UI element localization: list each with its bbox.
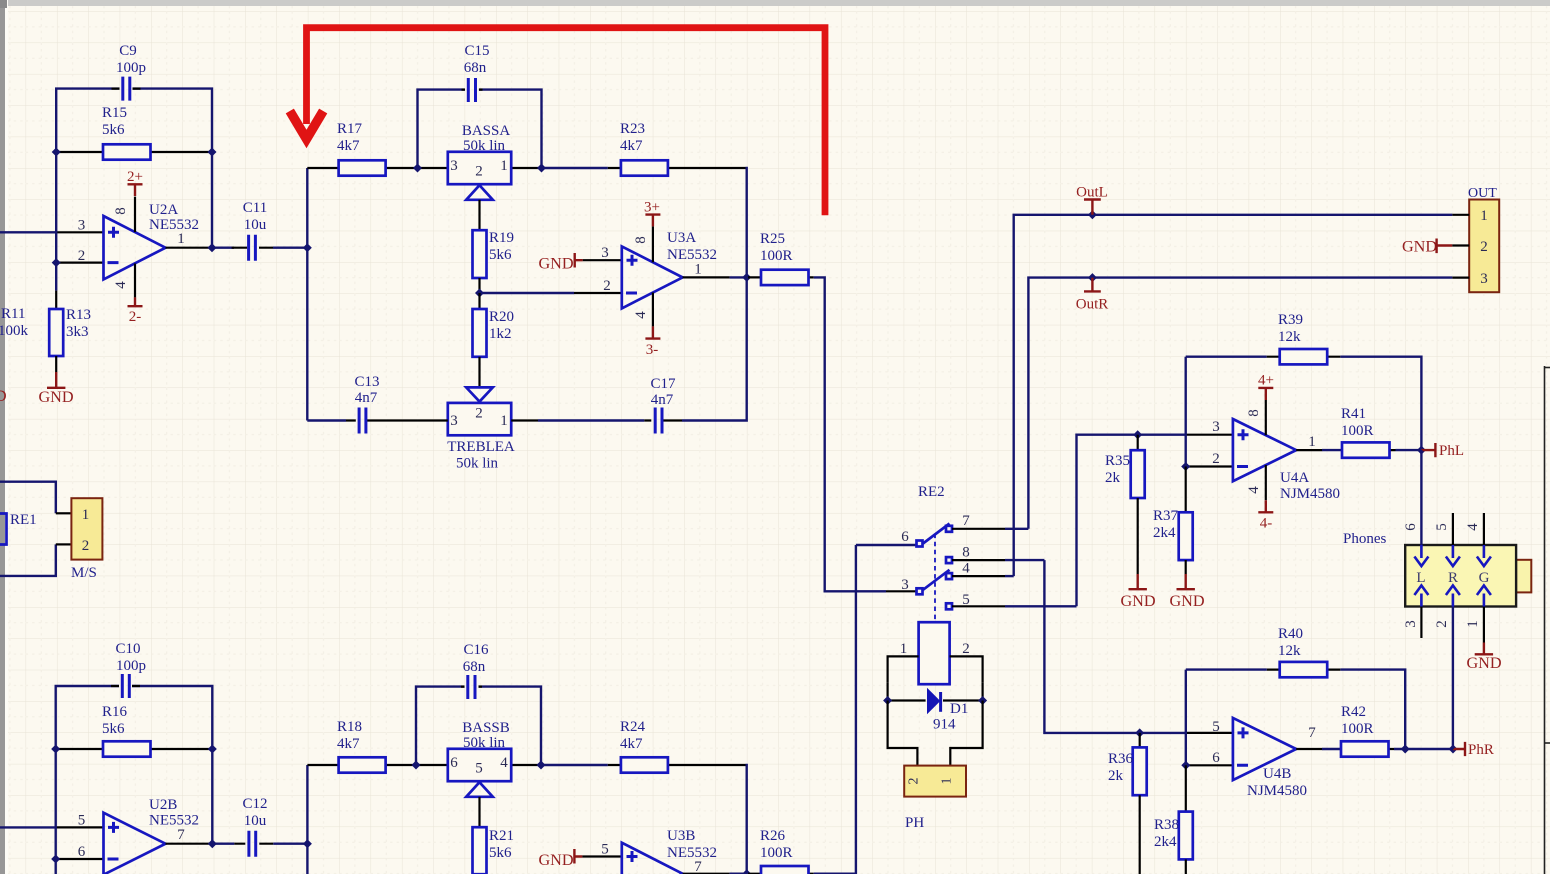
svg-text:100p: 100p — [116, 60, 146, 76]
svg-text:5: 5 — [475, 761, 483, 777]
output pin 1 wire — [1296, 449, 1395, 451]
svg-text:R11: R11 — [1, 306, 25, 322]
switch arm 3-4 — [923, 570, 950, 590]
svg-text:1: 1 — [1480, 208, 1488, 224]
coil pin 1 — [888, 656, 919, 682]
wire U2A inverting node — [55, 152, 57, 263]
svg-text:6: 6 — [78, 844, 86, 860]
resistor R17 — [339, 160, 386, 175]
svg-text:4: 4 — [1465, 523, 1481, 531]
svg-text:2: 2 — [1480, 239, 1488, 255]
svg-text:R38: R38 — [1154, 817, 1179, 833]
resistor R25 — [761, 270, 809, 285]
svg-text:68n: 68n — [464, 60, 487, 76]
resistor R23 — [621, 160, 668, 175]
svg-text:1k2: 1k2 — [489, 326, 512, 342]
wire R40/R38 node to U4B pin6 — [1185, 670, 1187, 766]
red annotation arrow — [290, 28, 825, 216]
wire R16 row — [56, 748, 213, 750]
svg-text:R41: R41 — [1341, 406, 1366, 422]
resistor R41 — [1342, 442, 1390, 457]
svg-text:GND: GND — [538, 851, 573, 869]
svg-text:100R: 100R — [760, 248, 793, 264]
svg-text:5k6: 5k6 — [102, 122, 125, 138]
wire R25 to RE2 pin3 — [814, 277, 886, 591]
svg-text:5k6: 5k6 — [489, 247, 512, 263]
power 3+ pin 8 — [652, 226, 654, 262]
svg-text:R16: R16 — [102, 704, 128, 720]
svg-text:GND: GND — [38, 388, 73, 406]
svg-text:C16: C16 — [463, 642, 489, 658]
svg-text:NJM4580: NJM4580 — [1280, 486, 1340, 502]
svg-text:U4A: U4A — [1280, 470, 1309, 486]
svg-text:4: 4 — [633, 311, 649, 319]
output pin 1 wire — [683, 276, 730, 278]
svg-text:RE2: RE2 — [918, 484, 945, 500]
output pin 7 wire — [683, 873, 730, 874]
svg-text:12k: 12k — [1278, 643, 1301, 659]
wire C9 top loop — [56, 89, 212, 152]
wire U2A out node vertical — [211, 152, 213, 248]
OUT pin3 lead — [1452, 277, 1469, 279]
pin 6 wire from PhL — [1420, 450, 1422, 545]
svg-text:8: 8 — [1246, 409, 1262, 417]
PhL node — [1396, 449, 1422, 451]
wire to pin 6 — [856, 544, 916, 546]
wire OutL net — [1014, 215, 1453, 576]
svg-text:U3A: U3A — [667, 230, 696, 246]
contact pin 6 — [917, 541, 923, 547]
jack body — [1516, 560, 1531, 593]
resistor R13 — [55, 263, 57, 291]
relay RE1 coil fragment at left edge — [0, 514, 7, 545]
connector PH — [904, 766, 966, 797]
svg-text:1: 1 — [694, 262, 702, 278]
svg-text:R36: R36 — [1108, 751, 1134, 767]
svg-text:8: 8 — [633, 236, 649, 244]
svg-text:4-: 4- — [1260, 516, 1273, 532]
svg-text:100R: 100R — [1341, 423, 1374, 439]
capacitor C15 — [468, 78, 475, 102]
power port OutR — [1088, 273, 1097, 282]
svg-text:C11: C11 — [243, 200, 267, 216]
feedback wire R39 — [1186, 357, 1422, 450]
svg-text:PH: PH — [905, 815, 924, 831]
svg-text:50k lin: 50k lin — [463, 735, 506, 751]
svg-text:3: 3 — [1403, 620, 1419, 628]
svg-text:GND: GND — [0, 387, 7, 405]
jack contacts L R G — [1414, 545, 1491, 607]
resistor R36 — [1139, 733, 1141, 748]
wire R18 row — [307, 764, 541, 766]
svg-text:R39: R39 — [1278, 312, 1303, 328]
svg-text:GND: GND — [1402, 238, 1437, 256]
power port PhL — [1421, 443, 1435, 457]
svg-text:R19: R19 — [489, 230, 514, 246]
svg-text:R25: R25 — [760, 231, 785, 247]
pin 4 contact — [946, 573, 952, 579]
svg-text:BASSA: BASSA — [462, 123, 511, 139]
wire RE2 pin5 to U4A pin3 — [1077, 435, 1187, 607]
svg-text:RE1: RE1 — [10, 512, 37, 528]
svg-text:4k7: 4k7 — [620, 138, 643, 154]
op-amp U2A — [104, 216, 166, 279]
power 4- pin 4 — [1265, 465, 1267, 500]
svg-text:R35: R35 — [1105, 453, 1130, 469]
OUT pin1 lead — [1452, 214, 1469, 216]
svg-text:1: 1 — [1465, 620, 1481, 628]
pin 1 GND — [1483, 607, 1485, 643]
svg-text:GND: GND — [538, 255, 573, 273]
pin 3 stub — [1420, 607, 1422, 639]
capacitor C10 — [122, 674, 129, 698]
capacitor C17 — [655, 408, 662, 434]
svg-text:7: 7 — [177, 827, 185, 843]
feedback wire R40 — [1186, 670, 1405, 749]
svg-text:50k lin: 50k lin — [456, 456, 499, 472]
svg-text:3: 3 — [1480, 271, 1488, 287]
svg-text:8: 8 — [962, 545, 970, 561]
diode D1 — [927, 688, 940, 715]
wire C16 loop — [416, 687, 541, 765]
svg-text:4: 4 — [113, 281, 129, 289]
svg-text:4+: 4+ — [1258, 373, 1274, 389]
svg-text:BASSB: BASSB — [462, 720, 510, 736]
svg-text:R20: R20 — [489, 309, 514, 325]
svg-text:2k4: 2k4 — [1154, 834, 1177, 850]
contact pin 7 — [946, 526, 952, 532]
svg-text:5k6: 5k6 — [102, 721, 125, 737]
wire U2B inverting node — [55, 749, 57, 874]
wire RE2 pin8 to U4B pin5 — [1044, 560, 1186, 733]
resistor R37 — [1185, 467, 1187, 513]
resistor R39 — [1280, 349, 1328, 364]
svg-text:6: 6 — [901, 529, 909, 545]
node vertical left x307 — [306, 168, 308, 421]
svg-text:1: 1 — [82, 507, 90, 523]
svg-text:3: 3 — [1212, 419, 1220, 435]
svg-text:U2B: U2B — [149, 797, 177, 813]
svg-text:50k lin: 50k lin — [463, 138, 506, 154]
junction BASSA pin3 node — [413, 164, 422, 173]
svg-text:1: 1 — [177, 231, 185, 247]
resistor R42 — [1341, 741, 1389, 756]
resistor R35 — [1137, 435, 1139, 451]
svg-text:1: 1 — [500, 413, 508, 429]
svg-text:C17: C17 — [650, 376, 676, 392]
TREBLEA wiper arrow — [478, 357, 480, 388]
pin 4 stub — [1483, 513, 1485, 545]
svg-text:U4B: U4B — [1263, 766, 1291, 782]
svg-text:4k7: 4k7 — [620, 736, 643, 752]
svg-text:6: 6 — [450, 755, 458, 771]
svg-text:4n7: 4n7 — [355, 390, 378, 406]
svg-text:1: 1 — [900, 641, 908, 657]
svg-text:PhR: PhR — [1468, 742, 1494, 758]
wire C10 top loop — [56, 686, 213, 749]
svg-text:2: 2 — [1212, 451, 1220, 467]
connector M/S — [71, 498, 102, 559]
op-amp U3A — [622, 246, 683, 308]
resistor R24 — [621, 757, 668, 772]
wire to C11 — [212, 246, 234, 248]
svg-text:2: 2 — [1434, 620, 1450, 628]
UI strips — [0, 0, 1550, 6]
svg-text:4n7: 4n7 — [651, 392, 674, 408]
svg-text:R40: R40 — [1278, 626, 1303, 642]
power 2- pin 4 — [134, 264, 136, 298]
svg-text:100R: 100R — [760, 845, 793, 861]
junction dots R15 row — [52, 148, 61, 157]
svg-text:5: 5 — [78, 813, 86, 829]
svg-text:1: 1 — [940, 778, 955, 785]
svg-text:3: 3 — [450, 158, 458, 174]
svg-text:U2A: U2A — [149, 202, 178, 218]
svg-text:R23: R23 — [620, 121, 645, 137]
pin 2 wire to PhR — [1452, 607, 1454, 750]
svg-text:C10: C10 — [115, 641, 140, 657]
wire C13 row — [307, 419, 346, 421]
svg-text:6: 6 — [1212, 750, 1220, 766]
diode D1 row — [886, 682, 888, 700]
node vertical left x307 up to R18 — [306, 765, 308, 844]
capacitor C12 — [249, 831, 256, 857]
svg-text:G: G — [1479, 570, 1490, 586]
power 2+ pin 8 — [134, 197, 136, 233]
svg-text:5: 5 — [1212, 719, 1220, 735]
svg-text:C15: C15 — [464, 43, 489, 59]
resistor R26 — [761, 866, 809, 874]
svg-text:5: 5 — [1434, 523, 1450, 531]
svg-text:3: 3 — [901, 577, 909, 593]
dashed link line — [934, 534, 936, 620]
svg-text:2k: 2k — [1108, 768, 1124, 784]
svg-text:OutL: OutL — [1076, 185, 1108, 201]
svg-text:2k4: 2k4 — [1153, 525, 1176, 541]
svg-text:1: 1 — [1308, 434, 1316, 450]
svg-text:3: 3 — [601, 245, 609, 261]
svg-text:2: 2 — [78, 248, 86, 264]
svg-text:GND: GND — [1120, 592, 1155, 610]
pin 7 lead — [952, 528, 1005, 530]
svg-text:10u: 10u — [244, 813, 267, 829]
potentiometer TREBLEA — [448, 403, 511, 435]
svg-text:1: 1 — [500, 158, 508, 174]
ground R35 — [1137, 498, 1139, 574]
wire to R25 — [747, 276, 749, 278]
svg-text:R42: R42 — [1341, 704, 1366, 720]
output pin 7 wire — [166, 843, 211, 845]
svg-text:4k7: 4k7 — [337, 138, 360, 154]
contact pin 3 — [917, 588, 923, 594]
svg-text:4: 4 — [962, 561, 970, 577]
svg-text:OutR: OutR — [1076, 297, 1109, 313]
pin 8 contact — [946, 557, 952, 563]
op-amp U4B — [1233, 718, 1296, 780]
svg-text:C9: C9 — [119, 43, 137, 59]
svg-text:NE5532: NE5532 — [149, 813, 199, 829]
wire RE1 pin2 — [0, 544, 56, 576]
svg-text:914: 914 — [933, 717, 956, 733]
output pin 1 wire — [166, 247, 211, 249]
svg-text:C13: C13 — [354, 374, 379, 390]
svg-text:R21: R21 — [489, 828, 514, 844]
svg-text:5: 5 — [601, 842, 609, 858]
op-amp U2B — [104, 813, 166, 874]
svg-text:2: 2 — [962, 641, 970, 657]
power 4+ pin 8 — [1265, 400, 1267, 435]
resistor R18 — [339, 757, 386, 772]
wire node to U3A pin2 — [480, 292, 575, 294]
svg-text:TREBLEA: TREBLEA — [447, 439, 515, 455]
wire R19 to node pin2 — [478, 278, 480, 293]
wire RE1 pin1 — [0, 482, 56, 514]
power 3- pin 4 — [652, 293, 654, 327]
capacitor C16 — [468, 675, 475, 699]
svg-text:NE5532: NE5532 — [667, 845, 717, 861]
svg-text:4: 4 — [500, 755, 508, 771]
pin 5 stub — [1452, 513, 1454, 545]
resistor R38 — [1185, 765, 1187, 811]
svg-text:3: 3 — [450, 413, 458, 429]
wire R15 row — [56, 151, 212, 153]
svg-text:R18: R18 — [337, 719, 362, 735]
capacitor C11 — [249, 235, 256, 261]
svg-text:8: 8 — [113, 207, 129, 215]
switch arm 6-7 — [923, 524, 950, 544]
svg-text:Phones: Phones — [1343, 531, 1387, 547]
svg-text:NE5532: NE5532 — [149, 217, 199, 233]
wire TREBLEA pin1 to C17 row — [538, 277, 747, 420]
svg-text:100R: 100R — [1341, 721, 1374, 737]
svg-text:R26: R26 — [760, 828, 786, 844]
ground R37 — [1185, 560, 1187, 574]
svg-text:2-: 2- — [129, 309, 142, 325]
resistor R20 — [478, 293, 480, 309]
svg-text:4: 4 — [1246, 486, 1262, 494]
svg-text:NE5532: NE5532 — [667, 247, 717, 263]
svg-text:NJM4580: NJM4580 — [1247, 783, 1307, 799]
wire BASSB pin4 to R24 — [541, 765, 747, 873]
svg-text:C12: C12 — [242, 796, 267, 812]
resistor R16 — [103, 741, 151, 756]
pin 3 lead U2A — [56, 231, 104, 233]
wire to R26 — [748, 873, 814, 874]
svg-text:100k: 100k — [0, 323, 29, 339]
svg-text:10u: 10u — [244, 217, 267, 233]
svg-text:R15: R15 — [102, 105, 127, 121]
wire C15 loop — [418, 90, 542, 168]
svg-text:R17: R17 — [337, 121, 363, 137]
ground R13 — [55, 356, 57, 372]
svg-text:2: 2 — [475, 406, 483, 422]
sheet border right — [1544, 366, 1546, 874]
wire input B to U2B pin5 — [0, 826, 56, 828]
wire R39/R37 node to U4A pin2 — [1184, 357, 1186, 467]
svg-text:68n: 68n — [463, 659, 486, 675]
svg-text:3+: 3+ — [644, 200, 660, 216]
svg-text:7: 7 — [1308, 725, 1316, 741]
svg-text:D1: D1 — [950, 701, 968, 717]
svg-text:7: 7 — [962, 513, 970, 529]
svg-text:3: 3 — [78, 218, 86, 234]
svg-text:R: R — [1448, 570, 1458, 586]
potentiometer BASSB — [448, 749, 511, 781]
pin 5 contact — [946, 603, 952, 609]
svg-text:5: 5 — [962, 592, 970, 608]
wire input A to U2A pin3 — [0, 231, 56, 233]
op-amp U3B — [622, 843, 683, 874]
resistor R19 — [473, 230, 487, 278]
svg-text:100p: 100p — [116, 658, 146, 674]
op-amp U4A — [1233, 419, 1296, 481]
wires D1 to PH — [888, 701, 918, 766]
svg-text:GND: GND — [1169, 592, 1204, 610]
svg-text:M/S: M/S — [71, 565, 97, 581]
relay coil RE2 — [919, 622, 950, 684]
PhR node — [1394, 748, 1453, 750]
svg-text:12k: 12k — [1278, 329, 1301, 345]
svg-text:2+: 2+ — [127, 169, 143, 185]
wire C12 to tone node — [273, 843, 307, 845]
svg-text:3-: 3- — [646, 342, 659, 358]
svg-text:2: 2 — [603, 278, 611, 294]
coil pin 2 — [950, 656, 983, 682]
svg-text:R24: R24 — [620, 719, 646, 735]
svg-text:5k6: 5k6 — [489, 845, 512, 861]
junction BASSB pin6 node — [412, 761, 421, 770]
svg-text:GND: GND — [1466, 654, 1501, 672]
wire OutR net — [1028, 278, 1452, 529]
svg-text:U3B: U3B — [667, 828, 695, 844]
wire BASSA pin1 to R23 — [542, 168, 747, 277]
svg-text:2: 2 — [82, 538, 90, 554]
resistor R15 — [103, 144, 151, 159]
svg-text:4k7: 4k7 — [337, 736, 360, 752]
svg-text:2: 2 — [907, 778, 922, 785]
svg-text:6: 6 — [1403, 523, 1419, 531]
svg-text:L: L — [1416, 570, 1425, 586]
BASSA wiper arrow — [466, 185, 493, 200]
wire U2B out node vertical — [211, 749, 213, 844]
resistor R21 — [473, 827, 487, 874]
wire R26 to RE2 pin6 — [814, 545, 856, 874]
capacitor C13 — [359, 408, 366, 434]
potentiometer BASSA — [448, 152, 511, 184]
svg-text:3k3: 3k3 — [66, 324, 89, 340]
wire to pin 3 — [886, 590, 917, 592]
svg-text:7: 7 — [694, 859, 702, 874]
capacitor C9 — [123, 77, 130, 101]
svg-text:PhL: PhL — [1439, 443, 1464, 459]
power port OutL — [1088, 210, 1097, 219]
svg-text:2: 2 — [475, 164, 483, 180]
wire to C12 — [212, 843, 234, 845]
wire R17 row — [307, 167, 541, 169]
svg-text:2k: 2k — [1105, 470, 1121, 486]
resistor R40 — [1280, 662, 1328, 677]
wire C11 to tone node — [273, 246, 307, 248]
power port PhR — [1453, 742, 1465, 756]
output pin 7 wire — [1296, 748, 1394, 750]
svg-text:R37: R37 — [1153, 508, 1179, 524]
BASSB wiper arrow — [466, 782, 493, 797]
svg-text:R13: R13 — [66, 307, 91, 323]
